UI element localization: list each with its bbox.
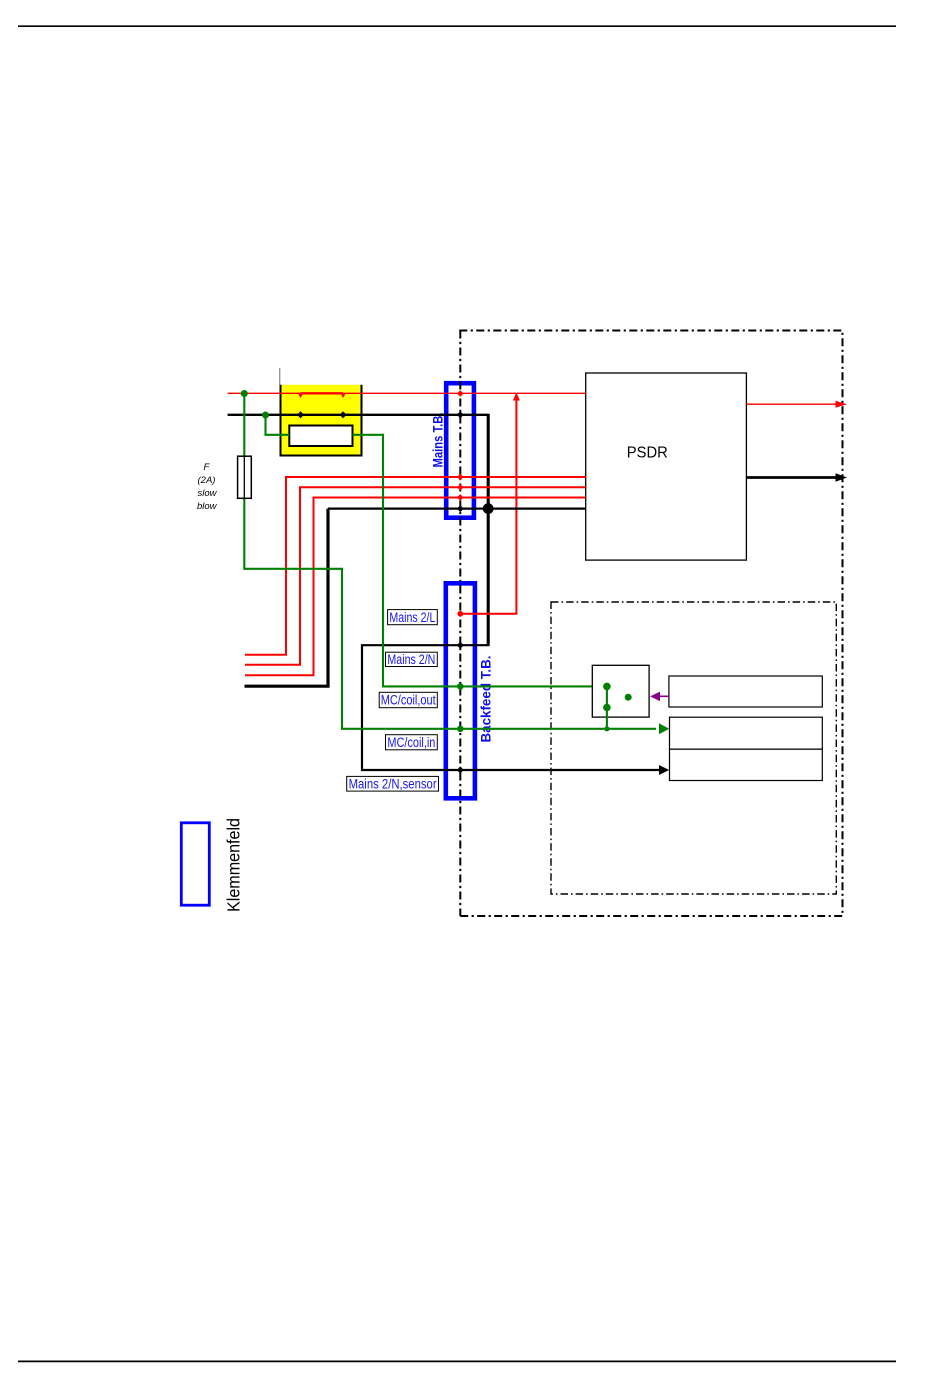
wire N drop (thick black vertical)	[362, 414, 661, 770]
enclosure dash-dot left edge (over TB fills)	[459, 331, 461, 917]
junction red TB1 pin 4	[457, 484, 464, 491]
fuse F1 body	[238, 456, 252, 498]
page top rule	[18, 25, 896, 27]
junction green TB2 pin 3	[457, 683, 464, 690]
wire PSDR output red	[746, 403, 840, 405]
relay K1 contact box	[592, 665, 649, 717]
wire green MC/coil,out (transformer to relay)	[266, 415, 607, 686]
enclosure dash-dot border (inner backfeed module)	[551, 602, 836, 894]
svg-text:Mains 2/N: Mains 2/N	[387, 652, 435, 667]
red bus wire 2	[245, 487, 586, 665]
svg-text:Mains 2/N,sensor: Mains 2/N,sensor	[349, 776, 437, 791]
arrow into sensor box	[659, 765, 669, 775]
junction red TB2 pin 1	[457, 611, 463, 617]
junction red TB1 pin 5	[457, 494, 464, 501]
wire green MC/coil,in (from fuse)	[244, 394, 656, 729]
junction green TB2 pin 4	[457, 726, 464, 733]
svg-text:MC/coil,out: MC/coil,out	[381, 693, 436, 708]
junction relay contact b	[603, 704, 611, 712]
net label MC/coil,in	[386, 735, 438, 750]
relay coil dot	[625, 694, 632, 701]
arrow up on 2/L riser	[513, 393, 520, 401]
page bottom rule	[18, 1360, 896, 1362]
black bus wire	[328, 508, 586, 510]
wire switch L segment (thick red)	[301, 392, 344, 394]
junction red TB1 pin 1	[457, 390, 464, 397]
enclosure dash-dot border (outer, left edge drawn later on top)	[459, 331, 842, 917]
junction green on mains L	[241, 390, 248, 397]
junction black TB1 pin 2	[457, 411, 464, 418]
arrow PSDR output black	[836, 473, 848, 482]
svg-text:Klemmenfeld: Klemmenfeld	[224, 818, 244, 912]
fuse F1 value label	[197, 462, 218, 512]
contact marker switch N left	[297, 411, 304, 418]
svg-text:blow: blow	[197, 501, 218, 512]
contact marker switch N right	[340, 411, 347, 418]
terminal block TB2 (Backfeed T.B)	[446, 583, 475, 798]
stub line above switch	[279, 368, 281, 385]
junction black TB2 pin 2	[457, 642, 464, 649]
terminal block TB1 (Mains T.B)	[446, 383, 474, 518]
output box 1	[669, 676, 822, 707]
wire mains L (red, top)	[228, 392, 586, 394]
junction red TB1 pin 3	[457, 474, 464, 481]
net label Mains 2/L	[388, 610, 438, 625]
wire mains N (black, top)	[228, 414, 489, 416]
purple control arrow	[650, 692, 669, 702]
svg-text:Mains T.B.: Mains T.B.	[431, 413, 446, 468]
junction node N star (big black dot)	[483, 503, 494, 514]
transformer T1 body	[289, 426, 352, 447]
net label MC/coil,out	[379, 692, 437, 707]
svg-text:slow: slow	[198, 488, 218, 499]
arrow green into backfeed box	[659, 723, 669, 734]
red bus wire 3	[245, 498, 586, 676]
svg-text:PSDR: PSDR	[627, 444, 668, 461]
legend Klemmenfeld symbol	[181, 823, 209, 905]
junction relay contact a	[603, 683, 611, 691]
output box 2	[670, 717, 823, 749]
PSDR module U1	[586, 373, 747, 560]
net label Mains 2/N	[386, 652, 438, 667]
svg-text:(2A): (2A)	[198, 475, 216, 486]
svg-text:MC/coil,in: MC/coil,in	[387, 735, 435, 750]
black bus wire L-drop (thick)	[245, 509, 329, 687]
wire PSDR output black	[746, 476, 838, 479]
junction green on mains N	[262, 412, 269, 419]
junction relay to coil-in	[604, 726, 609, 731]
wire mains 2/L (red vertical + horizontal to TB)	[460, 393, 516, 614]
output box 3	[670, 749, 823, 780]
red bus wire 1	[245, 477, 586, 655]
arrow PSDR output red	[836, 401, 848, 408]
junction black TB1 pin 6	[457, 505, 464, 512]
contact marker switch L left	[298, 393, 304, 398]
net label Mains 2/N,sensor	[347, 776, 439, 791]
relay coil link (green vertical)	[606, 686, 608, 728]
contact marker switch L right	[340, 393, 346, 398]
svg-text:Mains 2/L: Mains 2/L	[389, 610, 435, 625]
junction black TB2 pin 5	[457, 767, 464, 774]
switch S1 highlight (yellow)	[281, 385, 362, 456]
